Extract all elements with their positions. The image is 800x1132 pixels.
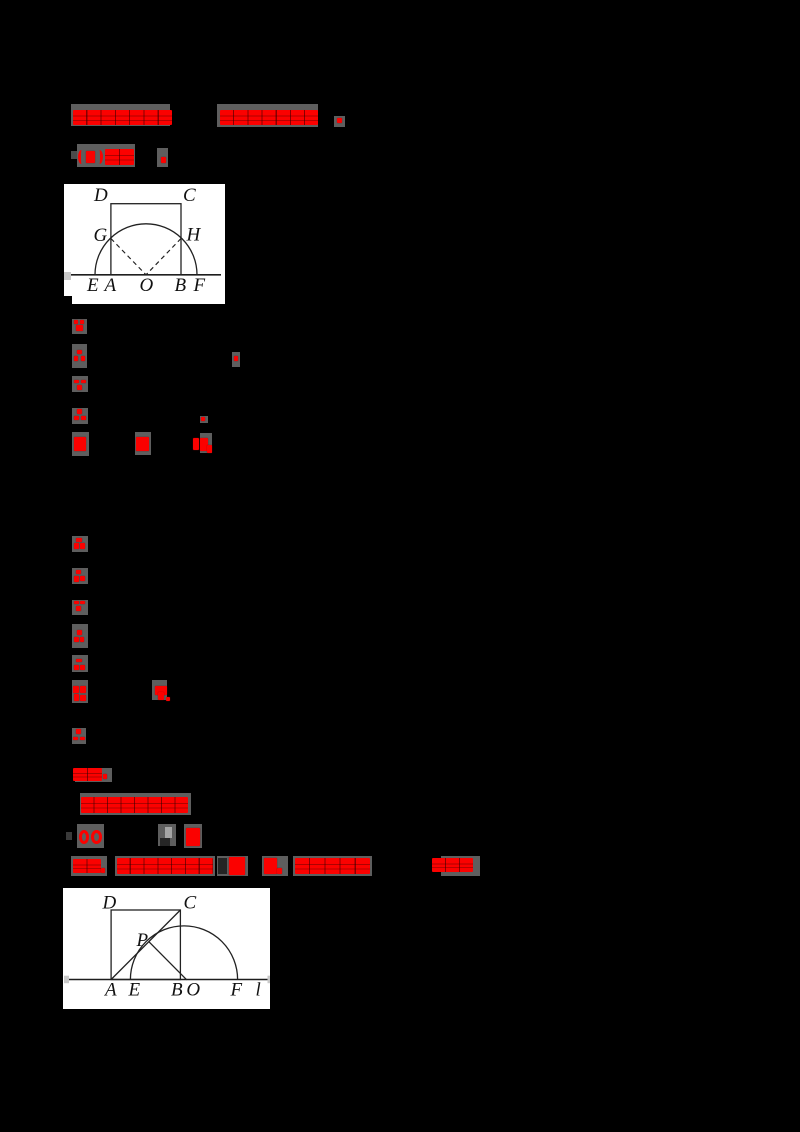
highlight bar line2 [77, 144, 135, 167]
highlight bar line775 [75, 768, 112, 782]
semicircle centered O [95, 223, 197, 274]
gray handle right [267, 976, 272, 984]
svg-text:C: C [183, 185, 196, 206]
column chip4 [72, 624, 88, 648]
svg-text:G: G [94, 225, 108, 246]
highlight line865 seg1 [71, 856, 107, 876]
square ABCD [111, 910, 180, 980]
column chip6 [72, 680, 88, 703]
dark chip line865 [217, 856, 229, 876]
highlight square period1 [334, 116, 345, 127]
small gray lead mark line2 [71, 151, 77, 159]
radius OP [149, 942, 187, 980]
figure 1 black notch bottom-left [64, 296, 72, 304]
svg-text:O: O [140, 275, 154, 296]
svg-text:D: D [101, 893, 116, 914]
svg-text:O: O [186, 980, 200, 1001]
svg-text:E: E [86, 275, 99, 296]
chip (1) [77, 824, 104, 848]
svg-text:C: C [183, 893, 196, 914]
highlight square period2 [157, 148, 168, 167]
red text run 1b [220, 110, 318, 125]
formula chip item1 [72, 319, 87, 334]
highlight line865 seg6 [441, 856, 480, 876]
figure 1 gray handle left [64, 272, 71, 280]
highlight bar line805 [80, 793, 191, 815]
formula chip item2 [72, 344, 87, 368]
small red dot chip b [200, 416, 208, 423]
svg-text:H: H [186, 224, 202, 245]
column chip5 [72, 655, 88, 672]
baseline EF [71, 273, 221, 275]
figure 1: semicircle O with square ABCD on line EF [64, 184, 225, 304]
column chip1 [72, 536, 88, 552]
gray handle left [64, 976, 69, 984]
highlight line865 seg5 [293, 856, 372, 876]
svg-text:E: E [127, 980, 140, 1001]
svg-text:D: D [93, 185, 108, 206]
column chip3 [72, 600, 88, 615]
svg-text:F: F [193, 275, 206, 296]
highlight line865 seg2 [115, 856, 215, 876]
dashed radius OH [146, 238, 181, 274]
semicircle centered O [130, 926, 237, 980]
svg-text:A: A [103, 275, 117, 296]
svg-text:F: F [229, 980, 242, 1001]
svg-text:A: A [103, 980, 117, 1001]
line440 chip1 [72, 432, 89, 456]
line l [64, 979, 269, 981]
highlight bar line1 part a [71, 104, 170, 126]
red (1) glyphs [79, 830, 89, 844]
svg-text:B: B [175, 275, 187, 296]
red text run 1a [73, 110, 172, 125]
lead mark line835 [66, 832, 72, 840]
highlight line865 seg3 [228, 856, 248, 876]
figure 2: square ABCD, diagonal AC tangent to semicircle O at P [63, 888, 270, 1009]
column chip7 [152, 680, 167, 700]
red run line805 [81, 797, 188, 813]
formula chip item4 [72, 408, 88, 424]
red chip right [184, 824, 202, 848]
svg-text:B: B [171, 980, 183, 1001]
chip y728 [72, 728, 86, 744]
svg-text:P: P [135, 930, 148, 951]
column chip2 [72, 568, 88, 584]
highlight bar line1 part b [217, 104, 318, 127]
small red dot chip a [232, 352, 240, 367]
square ABCD [111, 203, 181, 274]
line440 chip3 [193, 438, 199, 450]
svg-text:l: l [255, 980, 260, 1001]
red (2) marker [78, 150, 85, 164]
highlight line865 seg4 [262, 856, 288, 876]
diagonal AC [111, 910, 180, 980]
line440 chip2 [135, 432, 151, 455]
formula chip item3 [72, 376, 88, 392]
gray formula chip mid [158, 824, 176, 846]
dashed radius OG [111, 238, 146, 274]
